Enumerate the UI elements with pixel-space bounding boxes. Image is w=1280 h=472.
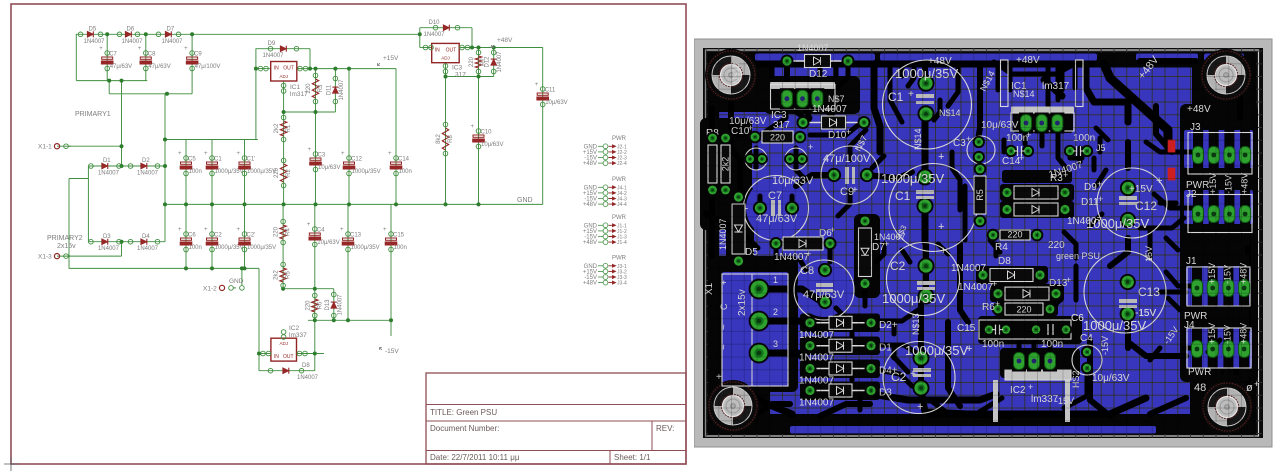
trace	[876, 244, 884, 262]
svg-text:+: +	[535, 82, 539, 88]
svg-text:X1-2: X1-2	[203, 285, 217, 292]
svg-text:+: +	[1098, 194, 1103, 204]
junction	[394, 202, 398, 206]
svg-text:2x15v: 2x15v	[57, 243, 76, 250]
svg-text:OUT: OUT	[446, 47, 457, 53]
svg-text:+: +	[1066, 275, 1071, 285]
pad	[804, 316, 817, 329]
restrict mark	[1168, 168, 1176, 181]
svg-text:C1: C1	[214, 157, 222, 163]
diode D11	[1007, 209, 1065, 211]
svg-text:D10: D10	[429, 20, 441, 26]
trace	[1098, 138, 1103, 152]
pad	[796, 88, 810, 109]
svg-text:C15: C15	[957, 323, 976, 334]
pad	[753, 201, 767, 215]
junction	[282, 110, 286, 114]
svg-text:+: +	[341, 151, 345, 157]
pad	[1059, 186, 1072, 199]
junction	[333, 67, 337, 71]
pad	[770, 237, 783, 250]
trace	[892, 321, 897, 334]
trace	[1176, 150, 1196, 155]
trace	[1023, 124, 1028, 144]
wire	[390, 204, 392, 336]
wire	[88, 241, 165, 243]
svg-text:ADJ: ADJ	[279, 341, 288, 346]
svg-text:+: +	[340, 227, 344, 233]
diode D12	[485, 50, 504, 74]
trace	[834, 64, 839, 76]
svg-text:1N4007: 1N4007	[339, 79, 345, 101]
svg-text:D8: D8	[302, 363, 310, 369]
svg-text:IC3: IC3	[452, 65, 463, 72]
svg-text:ADJ: ADJ	[441, 56, 450, 61]
copper-free region under IC1	[1013, 112, 1073, 133]
trace	[1168, 298, 1180, 310]
top isolation band	[708, 53, 1256, 68]
svg-text:+: +	[1019, 153, 1024, 163]
svg-text:1000μ/35V: 1000μ/35V	[905, 343, 968, 358]
svg-text:TITLE: Green PSU: TITLE: Green PSU	[430, 408, 497, 417]
corner region	[1192, 52, 1256, 108]
top copper bar	[755, 54, 875, 61]
svg-text:+: +	[966, 343, 972, 355]
svg-text:D8: D8	[998, 256, 1011, 267]
right copper patch	[1240, 128, 1253, 172]
copper-free strip D13	[990, 284, 1064, 302]
svg-text:10μ/63V: 10μ/63V	[481, 142, 503, 148]
copper-free region connectors	[1180, 104, 1258, 382]
junction	[163, 164, 167, 168]
svg-text:+: +	[1254, 379, 1259, 389]
svg-text:+: +	[966, 134, 971, 144]
wire	[348, 69, 350, 205]
svg-text:1N4007: 1N4007	[98, 171, 120, 177]
svg-text:1000μ/35V: 1000μ/35V	[247, 169, 276, 175]
capacitor C2 outline	[887, 243, 960, 316]
bottom copper bar	[790, 426, 1156, 434]
wire	[108, 81, 110, 94]
copper-free region IC2	[1000, 348, 1080, 378]
trace	[930, 400, 946, 412]
trace column	[1209, 182, 1219, 246]
right isolation band	[1240, 53, 1256, 434]
title block	[426, 373, 686, 464]
wire	[185, 140, 187, 269]
trace column	[1224, 182, 1234, 246]
right copper patch	[1240, 264, 1253, 308]
pad	[794, 131, 807, 144]
trace	[820, 404, 870, 416]
pad	[1031, 229, 1044, 242]
svg-text:1000μ/35V: 1000μ/35V	[215, 245, 244, 251]
svg-text:+48V: +48V	[583, 281, 597, 287]
junction	[470, 46, 474, 50]
trace column	[1208, 254, 1218, 319]
mounting hole top-right	[1200, 49, 1252, 101]
svg-text:100n: 100n	[189, 169, 202, 175]
wire	[284, 111, 336, 113]
junction	[282, 202, 286, 206]
svg-text:C14: C14	[398, 157, 410, 163]
svg-text:220: 220	[305, 300, 311, 311]
wire	[297, 68, 396, 70]
svg-text:+: +	[830, 225, 835, 235]
pad	[865, 339, 878, 352]
trace	[877, 370, 912, 386]
pad	[865, 316, 878, 329]
svg-text:C15: C15	[393, 233, 405, 239]
pad J4-1	[1192, 341, 1203, 358]
svg-text:J4-4: J4-4	[617, 202, 627, 208]
svg-text:1N4007: 1N4007	[424, 32, 446, 38]
svg-text:lm317: lm317	[1042, 81, 1070, 92]
pad J4-4	[1239, 341, 1250, 358]
svg-text:D10: D10	[828, 130, 847, 141]
svg-text:+48V: +48V	[583, 240, 597, 246]
trace	[766, 353, 814, 368]
trace	[1073, 64, 1078, 88]
copper-free region D7	[854, 214, 880, 298]
pad	[918, 75, 935, 92]
svg-text:IN: IN	[435, 47, 440, 53]
svg-text:R7: R7	[481, 58, 487, 66]
resistor R5	[974, 176, 986, 214]
J4 body	[1187, 328, 1251, 368]
diode D7	[864, 221, 866, 284]
copper-free strip R6	[994, 302, 1058, 316]
svg-text:GND: GND	[517, 197, 533, 204]
svg-text:1000μ/35V: 1000μ/35V	[247, 245, 276, 251]
svg-text:100n: 100n	[1073, 133, 1095, 144]
pad	[804, 339, 817, 352]
svg-text:OUT: OUT	[283, 354, 294, 360]
svg-text:C8: C8	[148, 52, 156, 58]
trace column	[1193, 182, 1203, 246]
capacitor C14	[388, 151, 412, 176]
wire	[297, 353, 315, 355]
svg-text:IN: IN	[274, 66, 279, 72]
svg-text:OUT: OUT	[283, 66, 294, 72]
trace	[1086, 64, 1128, 122]
svg-text:N$14: N$14	[939, 108, 961, 118]
pad	[719, 184, 732, 197]
trace column	[1208, 315, 1218, 381]
svg-text:+: +	[808, 142, 813, 152]
svg-text:1N4007: 1N4007	[84, 39, 106, 45]
resistor R6	[305, 293, 323, 318]
trace	[1090, 214, 1102, 226]
svg-text:D9: D9	[268, 41, 276, 47]
svg-text:+: +	[1026, 130, 1031, 140]
svg-text:+: +	[1028, 382, 1033, 392]
pad	[1081, 346, 1093, 358]
junction	[163, 138, 167, 142]
svg-text:J1: J1	[1186, 256, 1197, 267]
svg-text:D6: D6	[127, 27, 135, 33]
diode D10	[803, 122, 864, 124]
resistor R6	[1005, 303, 1043, 315]
trace	[822, 108, 833, 116]
resistor R8	[708, 145, 717, 183]
svg-text:+: +	[806, 249, 811, 259]
junction	[107, 79, 111, 83]
trace	[770, 64, 775, 76]
svg-text:C2': C2'	[247, 233, 256, 239]
svg-text:100n: 100n	[394, 245, 407, 251]
svg-text:+48V: +48V	[1238, 323, 1248, 344]
svg-text:100n: 100n	[399, 169, 412, 175]
trace	[1070, 156, 1082, 161]
wire	[106, 34, 108, 80]
trace	[934, 100, 940, 120]
trace	[921, 390, 1010, 416]
pad	[827, 168, 841, 182]
diode D8	[268, 363, 318, 381]
J2 copper	[1184, 190, 1253, 224]
trace	[804, 108, 810, 118]
corner mark	[4, 457, 18, 471]
junction	[184, 202, 188, 206]
pad	[796, 153, 808, 165]
svg-text:D4: D4	[142, 234, 150, 240]
trace	[1017, 342, 1022, 354]
svg-text:PWR: PWR	[612, 136, 627, 142]
trace	[1048, 342, 1053, 354]
pad J4-3	[1223, 341, 1234, 358]
svg-text:1000μ/35V: 1000μ/35V	[351, 245, 380, 251]
svg-text:REV:: REV:	[656, 424, 674, 433]
capacitor C15	[383, 227, 407, 252]
copper-free strip D8	[976, 266, 1048, 284]
svg-text:D3: D3	[879, 388, 892, 399]
trace	[796, 148, 806, 180]
pad J4-2	[1207, 341, 1218, 358]
wire	[446, 76, 494, 78]
capacitor C12 outline	[1097, 168, 1167, 238]
wire	[478, 48, 480, 205]
svg-text:D13: D13	[1049, 278, 1068, 289]
svg-text:+: +	[938, 221, 944, 233]
svg-text:+: +	[852, 185, 858, 196]
svg-text:+: +	[383, 227, 387, 233]
svg-text:PWR: PWR	[612, 215, 627, 221]
regulator IC2 package	[993, 380, 998, 422]
IC1 left leg	[1001, 60, 1009, 107]
trace	[877, 394, 996, 400]
junction	[163, 202, 167, 206]
pad	[785, 201, 799, 215]
trace column	[1192, 254, 1202, 319]
pad J2-3	[1224, 206, 1235, 223]
diode D8	[983, 274, 1040, 276]
trace	[1184, 346, 1196, 351]
wire	[347, 204, 349, 320]
pad	[780, 88, 794, 109]
trace	[1058, 124, 1066, 168]
pad	[818, 263, 832, 277]
J3 body	[1188, 133, 1252, 175]
pad	[818, 295, 832, 309]
svg-text:C13: C13	[350, 233, 362, 239]
svg-text:220: 220	[1007, 230, 1022, 240]
trace	[796, 112, 809, 121]
svg-text:R3: R3	[318, 84, 324, 92]
trace	[863, 284, 868, 306]
pad	[784, 153, 796, 165]
svg-text:IN: IN	[274, 354, 279, 360]
wire	[69, 267, 259, 269]
wire	[282, 204, 284, 288]
trace	[922, 205, 929, 242]
trace	[1140, 58, 1196, 64]
svg-text:1N4007: 1N4007	[122, 39, 144, 45]
junction	[165, 92, 169, 96]
trace column	[1209, 120, 1219, 188]
trace	[709, 108, 715, 256]
junction	[120, 144, 124, 148]
svg-text:+: +	[1156, 175, 1162, 187]
trace	[877, 345, 918, 354]
svg-text:+15V: +15V	[383, 55, 399, 62]
pad	[1001, 203, 1014, 216]
trace	[850, 332, 855, 344]
trace	[1032, 342, 1037, 354]
svg-text:C2: C2	[214, 233, 222, 239]
copper-free strip R3	[1002, 170, 1072, 183]
wire	[76, 33, 420, 35]
svg-text:PWR: PWR	[612, 256, 627, 262]
svg-text:N$7: N$7	[828, 94, 845, 104]
capacitor C3 outline	[967, 136, 995, 164]
capacitor C1&#39;	[237, 151, 277, 176]
junction	[389, 318, 393, 322]
trace	[1140, 218, 1184, 228]
schematic page frame	[11, 4, 686, 464]
pad	[842, 55, 855, 68]
wire	[445, 63, 447, 205]
svg-text:R6: R6	[982, 302, 995, 313]
trace	[938, 244, 948, 254]
pad J2-1	[1193, 206, 1204, 223]
resistor R2	[274, 158, 292, 188]
wire	[283, 81, 285, 204]
pad J1-3	[1223, 280, 1234, 297]
diode D2	[128, 158, 160, 176]
connector pin X1-2	[203, 285, 236, 292]
restrict mark	[1168, 140, 1176, 153]
pad	[1035, 113, 1049, 134]
copper-free region D5	[726, 186, 754, 278]
trace	[976, 158, 981, 168]
trace	[800, 260, 806, 270]
trace	[1154, 194, 1196, 208]
capacitor C8	[138, 46, 171, 71]
connector J3	[583, 256, 627, 287]
resistor R4	[1000, 230, 1030, 240]
right copper patch	[1240, 188, 1253, 228]
svg-text:+48V: +48V	[583, 202, 597, 208]
pad	[918, 288, 935, 305]
trace	[850, 368, 855, 380]
capacitor C9 outline	[821, 146, 879, 204]
diode D5	[78, 27, 105, 45]
svg-text:+48V: +48V	[497, 37, 513, 44]
trace	[1160, 201, 1176, 206]
junction	[184, 266, 188, 270]
pad	[810, 88, 824, 109]
trace	[874, 64, 880, 152]
trace	[958, 180, 963, 210]
pad J2-2	[1208, 206, 1219, 223]
svg-text:X1-1: X1-1	[38, 144, 52, 151]
IC1 right leg	[1076, 60, 1084, 107]
svg-text:J3-4: J3-4	[617, 281, 627, 287]
trace	[1160, 290, 1186, 295]
svg-text:ADJ: ADJ	[279, 74, 288, 79]
wire	[314, 204, 316, 370]
trace	[756, 404, 790, 414]
mounting hole bottom-right	[1201, 381, 1253, 433]
svg-text:C: C	[719, 303, 729, 310]
svg-text:317: 317	[773, 120, 790, 131]
svg-text:1N4007: 1N4007	[137, 246, 159, 252]
pad	[983, 324, 995, 336]
junction	[313, 287, 317, 291]
pad J1-1	[1192, 280, 1203, 297]
svg-text:D13: D13	[325, 299, 331, 311]
capacitor C10 outline	[745, 148, 767, 170]
wire	[164, 94, 166, 242]
diode D9	[1007, 192, 1065, 194]
diode D1	[89, 158, 122, 176]
svg-text:D12: D12	[809, 69, 828, 80]
pad	[797, 116, 810, 129]
svg-text:1000μ/35V: 1000μ/35V	[895, 66, 958, 81]
wire	[57, 255, 122, 257]
svg-text:47μ/63V: 47μ/63V	[756, 213, 798, 225]
trace	[994, 244, 999, 256]
trace	[796, 175, 834, 186]
C8 copper	[797, 263, 851, 317]
diode D4	[810, 368, 871, 370]
svg-text:~: ~	[719, 344, 730, 350]
svg-text:J4: J4	[1184, 320, 1195, 331]
svg-text:1N4007: 1N4007	[774, 252, 809, 263]
capacitor C1 outline	[883, 60, 972, 149]
trace	[1048, 300, 1060, 312]
wire	[259, 370, 315, 372]
wire	[315, 69, 317, 205]
connector pin X1-1	[38, 144, 71, 151]
junction	[120, 79, 124, 83]
trace	[1125, 333, 1131, 348]
copper-free strip D9	[1000, 184, 1074, 201]
board outline	[706, 50, 1259, 436]
capacitor C12	[341, 151, 381, 176]
wire	[241, 268, 243, 285]
svg-text:IC2: IC2	[1010, 385, 1026, 396]
junction	[210, 266, 214, 270]
junction	[281, 287, 285, 291]
junction	[144, 32, 148, 36]
junction	[257, 352, 261, 356]
trace	[892, 345, 897, 358]
svg-text:C3: C3	[953, 138, 966, 149]
pad	[1060, 324, 1072, 336]
svg-text:1N4007: 1N4007	[799, 398, 834, 409]
